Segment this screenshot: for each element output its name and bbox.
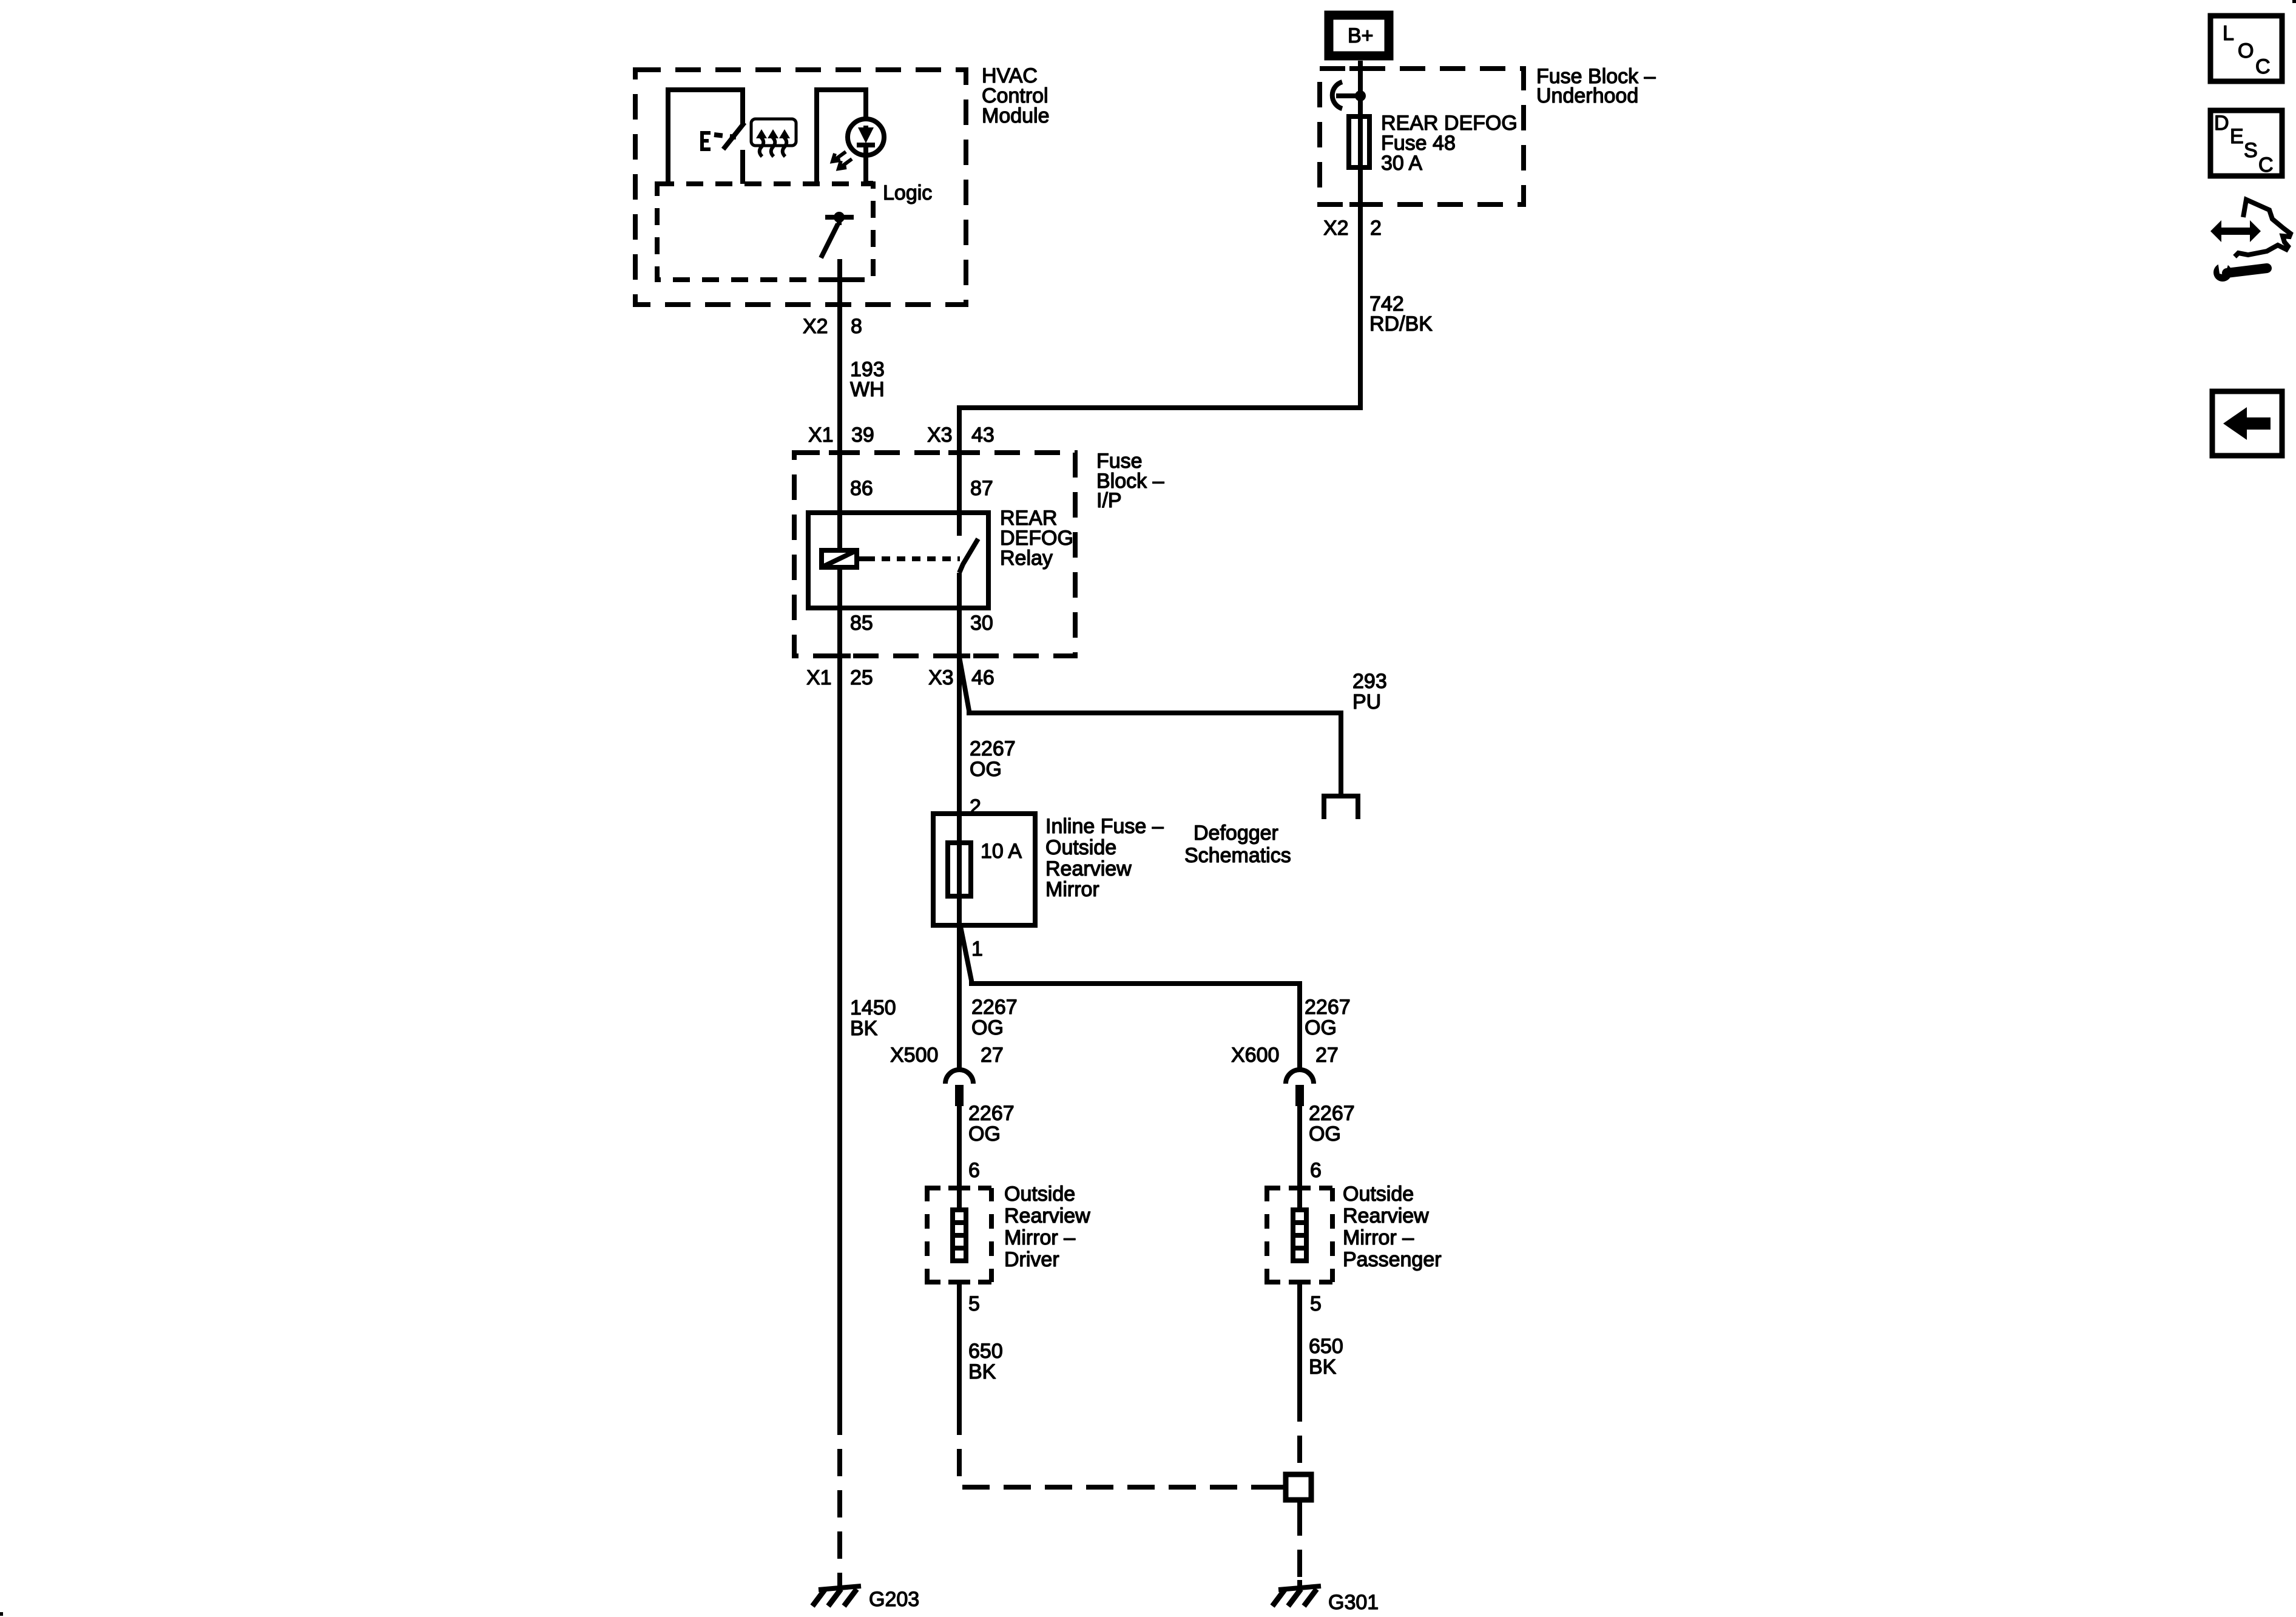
svg-text:1: 1 — [971, 937, 983, 960]
REAR DEFOG Relay box — [808, 513, 988, 608]
svg-text:Rearview: Rearview — [1343, 1204, 1429, 1227]
Outside Rearview Mirror Driver label — [1004, 1183, 1090, 1271]
relay coil wire to 85 — [837, 567, 842, 656]
pin labels X1 39 X3 43 — [808, 424, 994, 447]
svg-text:Inline Fuse –: Inline Fuse – — [1045, 815, 1164, 838]
HVAC Control Module outer box — [635, 70, 966, 305]
logic output switch — [821, 212, 854, 258]
svg-text:10 A: 10 A — [981, 840, 1022, 863]
pin labels X2 2 — [1323, 217, 1382, 240]
label 10 A — [981, 840, 1022, 863]
wire 742 RD/BK — [959, 167, 1360, 536]
svg-text:WH: WH — [850, 378, 885, 401]
svg-text:27: 27 — [981, 1044, 1004, 1067]
HVAC Control Module label — [982, 64, 1050, 127]
wire from B+ to fuse 48 — [1358, 61, 1363, 116]
svg-text:OG: OG — [1309, 1122, 1341, 1146]
Logic box — [657, 184, 873, 280]
fuse pull hook and junction dot — [1332, 82, 1366, 109]
svg-text:87: 87 — [970, 477, 993, 500]
X500 pin labels — [890, 1044, 1004, 1067]
Inline Fuse box — [933, 814, 1035, 925]
label 650 BK left — [968, 1340, 1003, 1383]
svg-text:X3: X3 — [927, 424, 953, 447]
driver mirror heater element — [953, 1210, 966, 1261]
wire 193 WH (HVAC X2-8 to relay 86) — [837, 259, 842, 550]
label 2267 OG below X600 — [1309, 1102, 1355, 1146]
pin labels 6 — [968, 1159, 1322, 1182]
svg-text:25: 25 — [850, 666, 873, 689]
X600 pin labels — [1231, 1044, 1339, 1067]
svg-text:C: C — [2255, 55, 2271, 78]
svg-text:30: 30 — [970, 612, 993, 635]
svg-text:2267: 2267 — [1305, 996, 1351, 1019]
svg-text:43: 43 — [971, 424, 994, 447]
inline fuse element — [948, 817, 971, 925]
B+ battery feed — [1329, 15, 1389, 56]
pin label 2 — [970, 795, 981, 819]
svg-text:Mirror –: Mirror – — [1004, 1226, 1075, 1249]
svg-text:I/P: I/P — [1096, 489, 1122, 512]
svg-text:C: C — [2258, 154, 2274, 177]
svg-text:1450: 1450 — [850, 996, 896, 1019]
svg-text:OG: OG — [968, 1122, 1001, 1146]
svg-text:D: D — [2214, 112, 2229, 135]
wire 650 BK driver mirror down — [959, 1282, 1286, 1487]
label 1450 BK — [850, 996, 896, 1040]
svg-text:Driver: Driver — [1004, 1248, 1059, 1271]
connector X500 — [945, 1070, 973, 1106]
LOC icon — [2210, 16, 2282, 81]
pushbutton switch (HVAC) — [668, 90, 745, 184]
branch wire 2267 OG to X600 — [961, 927, 1300, 1070]
G203 label — [869, 1588, 919, 1611]
wire 2267 OG to X500 — [957, 925, 962, 1070]
svg-text:X1: X1 — [806, 666, 832, 689]
svg-text:X2: X2 — [1323, 217, 1349, 240]
svg-text:46: 46 — [971, 666, 994, 689]
svg-text:2267: 2267 — [971, 996, 1018, 1019]
svg-text:30 A: 30 A — [1381, 152, 1422, 175]
label 2267 OG below X500 — [968, 1102, 1015, 1146]
svg-text:OG: OG — [971, 1016, 1004, 1039]
REAR DEFOG Relay label — [1000, 507, 1073, 570]
Defogger Schematics label — [1184, 822, 1291, 867]
svg-text:2267: 2267 — [968, 1102, 1015, 1125]
label 293 PU — [1352, 670, 1387, 714]
Outside Rearview Mirror Passenger label — [1343, 1183, 1442, 1271]
svg-text:X3: X3 — [928, 666, 954, 689]
svg-text:8: 8 — [851, 315, 862, 338]
label 2267 OG (right drop) — [1305, 996, 1351, 1039]
svg-text:BK: BK — [1309, 1355, 1337, 1379]
svg-text:Outside: Outside — [1045, 836, 1116, 859]
svg-text:85: 85 — [850, 612, 873, 635]
svg-text:27: 27 — [1315, 1044, 1339, 1067]
svg-text:650: 650 — [1309, 1335, 1343, 1358]
label 650 BK right — [1309, 1335, 1343, 1379]
Fuse Block Underhood label — [1536, 65, 1656, 107]
ground G301 — [1272, 1580, 1321, 1606]
pin labels 5 — [968, 1292, 1322, 1315]
Outside Rearview Mirror Driver box — [927, 1188, 991, 1282]
svg-text:Defogger: Defogger — [1194, 822, 1278, 845]
svg-text:2: 2 — [1370, 217, 1382, 240]
wire splice to G301 — [1297, 1508, 1302, 1585]
heated rear window indicator — [751, 119, 796, 157]
svg-text:X2: X2 — [803, 315, 828, 338]
svg-text:5: 5 — [968, 1292, 980, 1315]
Outside Rearview Mirror Passenger box — [1267, 1188, 1332, 1282]
svg-text:Module: Module — [982, 104, 1050, 127]
passenger mirror heater element — [1293, 1210, 1306, 1261]
svg-text:Passenger: Passenger — [1343, 1248, 1442, 1271]
svg-text:Relay: Relay — [1000, 547, 1053, 570]
label 2267 OG (left drop) — [971, 996, 1018, 1039]
svg-text:X500: X500 — [890, 1044, 938, 1067]
defogger schematics bracket — [1324, 796, 1358, 819]
svg-text:BK: BK — [968, 1360, 996, 1383]
wire 2267 OG relay 30 to inline fuse — [957, 656, 962, 817]
svg-text:Underhood: Underhood — [1536, 84, 1638, 107]
svg-text:S: S — [2244, 139, 2258, 162]
branch 293 PU to defogger — [959, 657, 1341, 794]
wire 2267 OG X500 to driver mirror — [957, 1106, 962, 1210]
pin labels X2 8 — [803, 315, 862, 338]
svg-text:293: 293 — [1352, 670, 1387, 693]
ground G203 — [812, 1580, 861, 1606]
svg-text:Outside: Outside — [1343, 1183, 1414, 1206]
fuse 48 element — [1349, 116, 1369, 167]
svg-text:E: E — [2230, 125, 2244, 148]
relay pin labels 86 87 85 30 — [850, 477, 993, 635]
Fuse Block I/P label — [1096, 450, 1164, 512]
svg-text:Outside: Outside — [1004, 1183, 1075, 1206]
svg-text:Rearview: Rearview — [1045, 857, 1132, 880]
splice S301 — [1286, 1474, 1311, 1508]
svg-text:Mirror: Mirror — [1045, 878, 1099, 901]
DESC icon — [2210, 110, 2282, 177]
svg-text:OG: OG — [1305, 1016, 1337, 1039]
svg-text:5: 5 — [1310, 1292, 1322, 1315]
svg-text:6: 6 — [1310, 1159, 1322, 1182]
label 2267 OG (above inline fuse) — [970, 737, 1016, 781]
svg-text:39: 39 — [851, 424, 874, 447]
svg-text:X1: X1 — [808, 424, 834, 447]
relay coil — [822, 550, 960, 567]
wire 650 BK passenger mirror down — [1297, 1282, 1302, 1472]
svg-text:B+: B+ — [1348, 24, 1374, 47]
svg-text:Mirror –: Mirror – — [1343, 1226, 1414, 1249]
Inline Fuse label — [1045, 815, 1164, 901]
back arrow icon — [2212, 391, 2282, 456]
svg-text:G203: G203 — [869, 1588, 919, 1611]
svg-text:Rearview: Rearview — [1004, 1204, 1090, 1227]
svg-text:BK: BK — [850, 1017, 878, 1040]
G301 label — [1328, 1591, 1379, 1614]
svg-text:86: 86 — [850, 477, 873, 500]
label 193 WH — [850, 358, 885, 401]
page corner mark — [2292, 0, 2296, 3]
REAR DEFOG Fuse 48 label — [1381, 112, 1518, 175]
svg-text:6: 6 — [968, 1159, 980, 1182]
Fuse Block I/P box — [794, 453, 1075, 656]
LED indicator (defog on lamp) — [817, 90, 884, 184]
pin labels X1 25 X3 46 — [806, 666, 994, 689]
svg-text:Schematics: Schematics — [1184, 844, 1291, 867]
wire 1450 BK (relay 85 to G203) — [837, 656, 842, 1585]
label 742 RD/BK — [1369, 292, 1433, 336]
svg-text:650: 650 — [968, 1340, 1003, 1363]
wire 2267 OG X600 to passenger mirror — [1297, 1106, 1302, 1210]
svg-text:OG: OG — [970, 758, 1002, 781]
svg-text:PU: PU — [1352, 690, 1381, 714]
connector X600 — [1286, 1070, 1314, 1106]
svg-text:L: L — [2223, 22, 2234, 45]
svg-text:O: O — [2238, 39, 2254, 62]
relay switch blade and pin 30 wire — [959, 539, 978, 656]
pin label 1 — [971, 937, 983, 960]
Logic label — [883, 181, 932, 204]
svg-text:RD/BK: RD/BK — [1369, 312, 1433, 336]
svg-text:2267: 2267 — [970, 737, 1016, 760]
svg-text:Logic: Logic — [883, 181, 932, 204]
svg-text:X600: X600 — [1231, 1044, 1279, 1067]
diagnostic car icon — [2210, 200, 2291, 282]
svg-text:2267: 2267 — [1309, 1102, 1355, 1125]
button actuator E with dashed link — [702, 133, 736, 149]
Fuse Block Underhood box — [1320, 69, 1524, 204]
svg-text:G301: G301 — [1328, 1591, 1379, 1614]
page bottom-left dot — [0, 1612, 3, 1616]
